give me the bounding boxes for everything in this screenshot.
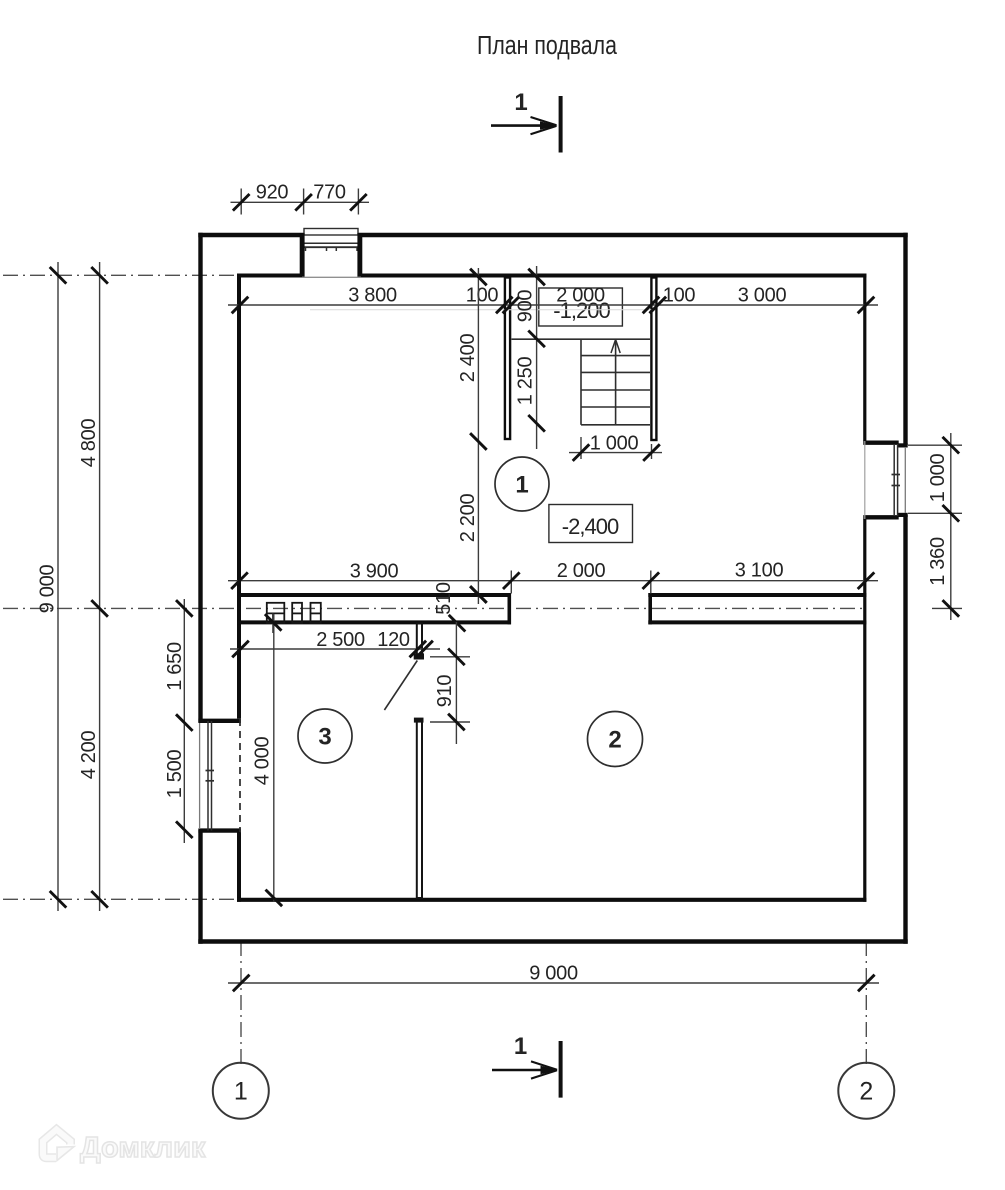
svg-text:1 000: 1 000 <box>590 433 639 455</box>
axis line 1 vertical <box>240 941 242 1064</box>
middle wall right segment <box>648 593 866 624</box>
watermark <box>43 1130 206 1165</box>
svg-text:3 800: 3 800 <box>348 285 397 307</box>
window top: jambs <box>300 233 363 278</box>
svg-text:9 000: 9 000 <box>37 565 59 614</box>
svg-text:120: 120 <box>377 629 410 651</box>
window right: jog stubs <box>898 445 908 515</box>
svg-text:3: 3 <box>318 724 331 751</box>
svg-text:770: 770 <box>313 182 346 204</box>
svg-text:510: 510 <box>433 582 455 615</box>
window right: outer opening line <box>904 447 906 513</box>
dim chain y305: 3800/100/2000/100/3000 <box>228 285 878 314</box>
door leaf <box>384 661 417 711</box>
flue box 2 <box>292 603 302 623</box>
window left: inner dashed line <box>239 719 241 832</box>
stair partition right (100mm) <box>651 278 656 441</box>
svg-text:2 200: 2 200 <box>457 494 479 543</box>
dim 900/1250 stairs vertical <box>515 266 545 449</box>
svg-text:1: 1 <box>515 472 528 499</box>
svg-text:2: 2 <box>859 1078 873 1106</box>
dim 910 <box>430 622 470 744</box>
svg-text:2 000: 2 000 <box>556 285 605 307</box>
dim 4000 room3 vertical <box>252 614 283 906</box>
title <box>477 31 618 61</box>
dim 1650/1500 left vertical <box>164 599 193 843</box>
dim 4800/4200 left vertical <box>78 262 108 911</box>
dim chain y581: 3900/2000/3100 <box>228 560 878 594</box>
svg-text:3 100: 3 100 <box>735 560 784 582</box>
svg-text:2 400: 2 400 <box>457 334 479 383</box>
svg-text:1 360: 1 360 <box>927 537 949 586</box>
svg-text:100: 100 <box>663 285 696 307</box>
svg-text:2 500: 2 500 <box>316 629 365 651</box>
svg-text:1: 1 <box>234 1078 248 1106</box>
stair partition left (100mm) <box>505 278 510 440</box>
svg-text:Домклик: Домклик <box>80 1132 206 1164</box>
window left: frame <box>206 721 215 831</box>
partition 120mm upper segment with cap <box>414 624 424 660</box>
inner wall face bottom <box>237 898 866 902</box>
outer wall top <box>198 233 907 237</box>
svg-text:3 000: 3 000 <box>738 285 787 307</box>
svg-text:1 500: 1 500 <box>164 750 186 799</box>
room circle 1 <box>495 457 549 511</box>
inner wall face left <box>237 275 241 902</box>
section mark top <box>491 89 561 153</box>
window right: inner opening line <box>864 441 866 519</box>
window left: niche edges <box>198 721 241 831</box>
window right: niche edges <box>863 443 898 518</box>
window left: outer opening line <box>199 723 201 829</box>
window right: frame <box>892 444 901 516</box>
svg-text:920: 920 <box>256 182 289 204</box>
svg-text:-2,400: -2,400 <box>562 514 619 539</box>
middle wall left segment <box>237 593 511 624</box>
room circle 2 <box>588 712 643 767</box>
dim 9000 left vertical <box>37 262 67 911</box>
dim 1000 stairs <box>569 433 662 461</box>
axis line 2 vertical <box>865 941 867 1064</box>
window top: frame <box>300 243 362 251</box>
svg-text:900: 900 <box>515 290 537 323</box>
svg-text:2: 2 <box>608 727 621 754</box>
svg-text:4 000: 4 000 <box>252 737 274 786</box>
level box -1,200 <box>539 288 623 326</box>
inner wall face top <box>237 274 866 278</box>
window top: well <box>304 229 358 236</box>
svg-text:1 250: 1 250 <box>515 357 537 406</box>
faint guide line <box>310 309 655 311</box>
partition 120mm lower segment <box>414 718 424 898</box>
svg-text:4 200: 4 200 <box>78 731 100 780</box>
grid circle 1 <box>213 1063 269 1119</box>
flue box 3 <box>311 603 321 623</box>
room circle 3 <box>298 709 352 763</box>
svg-text:100: 100 <box>466 285 499 307</box>
dim 2400/2200 vertical <box>457 268 487 604</box>
svg-text:4 800: 4 800 <box>78 419 100 468</box>
svg-text:План подвала: План подвала <box>477 31 618 61</box>
window top: inner opening line <box>302 276 361 278</box>
level box -2,400 <box>549 505 633 543</box>
axis line A top <box>3 274 237 276</box>
svg-text:2 000: 2 000 <box>557 560 606 582</box>
svg-text:910: 910 <box>434 675 456 708</box>
stairs <box>512 339 651 425</box>
svg-text:1: 1 <box>514 1033 527 1060</box>
outer wall bottom <box>198 939 907 943</box>
axis line C bottom <box>3 898 236 900</box>
dim 510 <box>433 582 487 631</box>
dim 920/770 top-left <box>231 182 370 215</box>
svg-text:9 000: 9 000 <box>529 963 578 985</box>
inner wall face right <box>863 274 866 902</box>
outer wall left <box>198 233 202 944</box>
dim 1000/1360 right vertical <box>908 433 962 620</box>
grid circle 2 <box>838 1063 894 1119</box>
stairs up arrow <box>611 340 620 425</box>
flue box 1 <box>267 603 285 623</box>
dim 9000 bottom <box>228 963 879 992</box>
axis line B middle <box>3 607 864 609</box>
flue tick <box>272 613 274 633</box>
svg-text:1 650: 1 650 <box>164 642 186 691</box>
section mark bottom <box>492 1033 561 1098</box>
svg-text:1 000: 1 000 <box>927 454 949 503</box>
svg-text:3 900: 3 900 <box>350 561 399 583</box>
dim 2500/120 <box>230 629 440 657</box>
outer wall right <box>903 233 907 944</box>
svg-text:1: 1 <box>514 89 527 116</box>
